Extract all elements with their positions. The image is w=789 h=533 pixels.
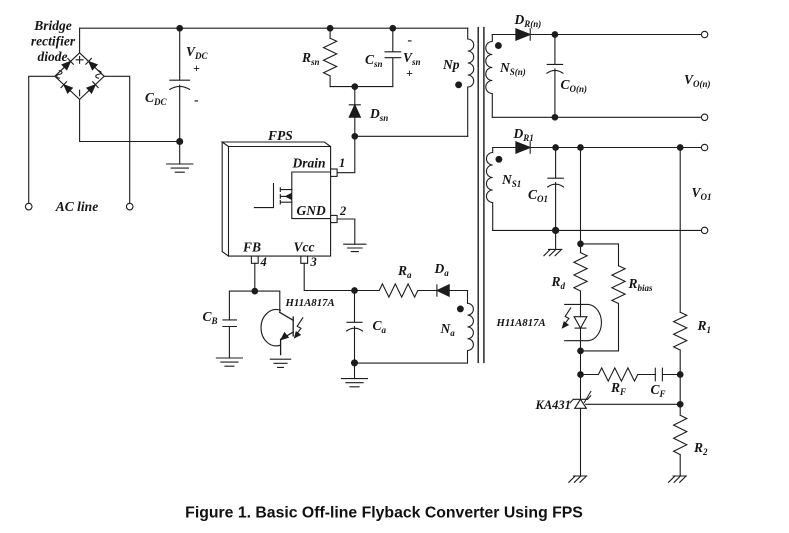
svg-text:1: 1 <box>339 156 345 170</box>
svg-text:-: - <box>194 93 199 108</box>
capacitor CF <box>655 368 680 381</box>
wire KA431 ref <box>586 403 681 405</box>
svg-text:CO(n): CO(n) <box>561 77 588 94</box>
svg-text:CDC: CDC <box>145 90 168 107</box>
terminal AC left <box>25 203 32 210</box>
svg-text:2: 2 <box>339 204 346 218</box>
node Vcc <box>352 288 358 294</box>
svg-text:H11A817A: H11A817A <box>285 297 335 309</box>
svg-text:NS(n): NS(n) <box>499 60 526 77</box>
terminal VO(n) minus <box>701 114 707 120</box>
wire Rd branch down <box>580 148 582 253</box>
svg-text:DR1: DR1 <box>513 126 534 143</box>
wire FB down <box>254 263 256 291</box>
svg-text:NS1: NS1 <box>501 172 521 189</box>
resistor R2 <box>674 375 687 477</box>
wire FB to CB <box>229 291 254 320</box>
wire Np bottom to node <box>355 135 468 137</box>
node ref-R2 <box>677 402 683 408</box>
terminal VO(n) plus <box>701 31 707 37</box>
capacitor CO1 <box>548 148 564 231</box>
transistor SenseFET body arrow <box>286 194 291 199</box>
wire CO1 to chassis ground <box>555 230 557 249</box>
wire Vcc down <box>304 263 354 290</box>
svg-text:FPS: FPS <box>267 128 293 143</box>
node RF right <box>677 372 683 378</box>
bridge ac squiggle left <box>57 71 62 79</box>
opto LED housing <box>565 304 602 340</box>
wire DR(n) to output <box>530 34 701 36</box>
svg-text:-: - <box>408 33 413 48</box>
wire snubber bottom <box>330 86 393 88</box>
ground chassis CO1 <box>544 249 562 255</box>
svg-text:AC line: AC line <box>55 199 98 214</box>
node Ns1 polarity dot <box>496 156 502 162</box>
terminal VO1 minus <box>701 227 707 233</box>
ground CDC <box>167 164 193 172</box>
wire FB to opto collector <box>255 291 280 312</box>
wire Ns(n) bottom <box>492 116 701 118</box>
bridge rectifier diamond <box>55 53 104 100</box>
svg-text:+: + <box>193 61 200 75</box>
bridge minus mark <box>79 90 81 96</box>
svg-text:Ca: Ca <box>373 318 387 335</box>
svg-text:Dsn: Dsn <box>369 106 388 123</box>
svg-text:rectifier: rectifier <box>31 34 76 49</box>
wire bridge bottom to CDC node <box>80 99 180 141</box>
FPS box <box>222 142 330 256</box>
capacitor Ca <box>347 291 363 363</box>
diode Dsn <box>349 87 360 137</box>
svg-text:DR(n): DR(n) <box>514 12 542 29</box>
node CO(n) top <box>552 32 558 38</box>
node CO1 top <box>553 145 559 151</box>
wire Ns1 top <box>493 147 516 149</box>
terminal VO1 plus <box>701 144 707 150</box>
ground chassis R2 <box>669 476 687 482</box>
capacitor CO(n) <box>547 35 563 118</box>
transistor SenseFET gate <box>254 184 273 208</box>
opto light arrow 1 <box>295 318 303 338</box>
ground opto emitter <box>270 359 290 367</box>
resistor Rsn <box>324 28 337 86</box>
wire pin2 to ground <box>337 219 355 244</box>
svg-text:GND: GND <box>297 203 326 218</box>
diode Da <box>437 285 468 297</box>
winding Ns(n) <box>486 35 492 118</box>
label Bridge rectifier diode <box>31 18 76 64</box>
svg-text:Rd: Rd <box>551 274 566 291</box>
resistor RF <box>581 368 656 381</box>
wire Ns(n) top <box>492 34 516 36</box>
terminal AC right <box>126 203 133 210</box>
node R1 branch <box>677 145 683 151</box>
node CDC-return <box>177 139 183 145</box>
node Rd branch <box>578 145 584 151</box>
svg-text:CB: CB <box>203 309 218 326</box>
winding Np <box>468 28 474 136</box>
svg-text:Rsn: Rsn <box>301 50 320 67</box>
opto light arrow 2 <box>563 308 571 328</box>
svg-text:Drain: Drain <box>292 156 326 171</box>
svg-text:KA431: KA431 <box>535 398 571 412</box>
bridge diode D-bottomleft <box>61 82 73 94</box>
pin 2 square <box>331 215 338 222</box>
capacitor CDC <box>170 28 190 141</box>
resistor Rd <box>574 253 587 317</box>
svg-text:R2: R2 <box>693 440 708 457</box>
resistor Rbias <box>581 266 626 351</box>
svg-text:Da: Da <box>434 261 450 278</box>
node Rsn-rail <box>327 25 333 31</box>
node Ca bottom <box>352 360 358 366</box>
svg-text:Na: Na <box>440 321 456 338</box>
node Dsn-drain <box>352 134 358 140</box>
bridge diode D-bottomright <box>86 82 98 94</box>
svg-text:VO(n): VO(n) <box>684 72 711 89</box>
wire DR1 to output <box>530 147 701 149</box>
bridge ac squiggle right <box>96 71 101 79</box>
node CDC-rail <box>177 25 183 31</box>
node Na polarity dot <box>458 306 464 312</box>
wire LED to RF node <box>580 351 582 375</box>
svg-text:Rbias: Rbias <box>628 276 654 293</box>
svg-text:VO1: VO1 <box>692 185 712 202</box>
svg-text:Vcc: Vcc <box>294 240 315 255</box>
pin 1 square <box>331 169 338 176</box>
capacitor Csn <box>385 28 401 86</box>
svg-text:4: 4 <box>260 255 267 269</box>
diode opto LED H11A817A <box>574 317 587 351</box>
svg-text:RF: RF <box>610 380 626 397</box>
node FB <box>252 288 258 294</box>
wire Rbias top <box>581 244 619 266</box>
transistor SenseFET channel stubs <box>280 188 292 204</box>
svg-text:Np: Np <box>442 57 460 72</box>
ground Ca <box>342 379 368 387</box>
winding Na <box>355 291 474 364</box>
svg-text:H11A817A: H11A817A <box>496 317 546 329</box>
svg-text:Bridge: Bridge <box>33 18 72 33</box>
capacitor CB <box>223 320 237 358</box>
wire CDC to ground <box>179 142 181 165</box>
ground pin2 <box>344 244 366 251</box>
svg-text:CF: CF <box>651 382 666 399</box>
node Np polarity dot <box>456 82 462 88</box>
ground chassis KA431 <box>569 476 587 482</box>
svg-text:Csn: Csn <box>365 52 383 69</box>
resistor Ra <box>355 284 437 297</box>
svg-text:VDC: VDC <box>186 44 209 61</box>
FPS inner box <box>292 172 331 219</box>
node RF left <box>578 372 584 378</box>
diode DR1 <box>516 142 530 153</box>
wire top rail <box>80 27 468 29</box>
svg-text:+: + <box>406 66 413 80</box>
wire R1 top <box>679 148 681 313</box>
node Ns(n) polarity dot <box>496 43 502 49</box>
svg-text:CO1: CO1 <box>528 187 548 204</box>
bridge diode D-topright <box>86 58 98 70</box>
svg-text:Figure 1. Basic Off-line Flyba: Figure 1. Basic Off-line Flyback Convert… <box>185 505 583 522</box>
transistor opto H11A817A detector <box>261 310 293 355</box>
wire bridge top to rail <box>79 28 81 53</box>
winding Ns1 <box>486 148 492 231</box>
diode DR(n) <box>516 29 530 40</box>
transformer core <box>478 28 484 363</box>
svg-text:Vsn: Vsn <box>403 50 421 67</box>
svg-text:Ra: Ra <box>397 263 412 280</box>
svg-text:3: 3 <box>310 255 317 269</box>
pin 3 square <box>301 256 308 263</box>
wire Ns1 bottom <box>493 229 702 231</box>
node CO1 bottom <box>553 227 559 233</box>
node Dsn-top <box>352 84 358 90</box>
node Rbias split <box>578 241 584 247</box>
regulator KA431 <box>570 375 591 477</box>
node CO(n) bottom <box>552 115 558 121</box>
node Csn-rail <box>390 25 396 31</box>
resistor R1 <box>674 312 687 374</box>
svg-text:R1: R1 <box>697 318 712 335</box>
wire Ca to ground <box>354 363 356 379</box>
node LED bottom <box>578 348 584 354</box>
bridge plus mark <box>76 56 83 63</box>
wire AC left <box>29 76 55 203</box>
wire AC right <box>104 76 130 203</box>
wire node to drain pin <box>337 136 355 172</box>
svg-text:FB: FB <box>242 240 261 255</box>
svg-text:diode: diode <box>38 49 68 64</box>
pin 4 square <box>251 256 258 263</box>
ground CB <box>216 358 242 366</box>
bridge diode D-topleft <box>62 58 74 70</box>
